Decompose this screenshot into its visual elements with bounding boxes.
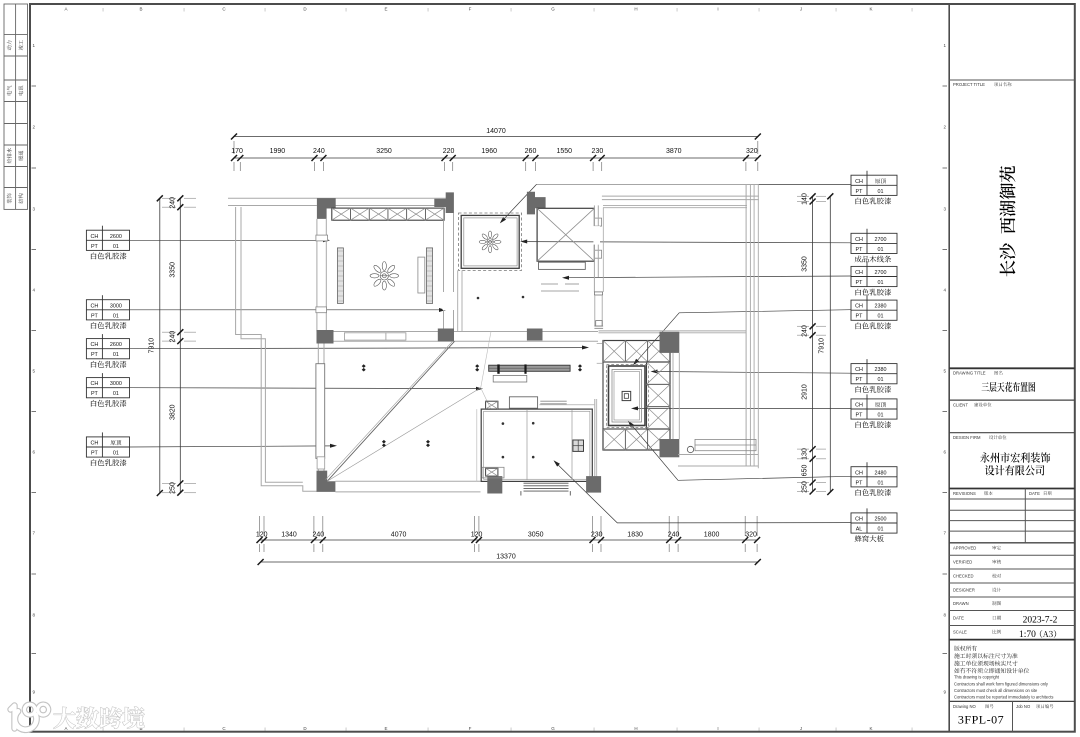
bedroom2 left wall window gap (593, 226, 600, 245)
discipline label 电气 (7, 86, 12, 96)
entry X-box top-left (486, 401, 498, 409)
svg-text:1990: 1990 (270, 148, 286, 155)
caption 白色乳胶漆 (856, 421, 892, 428)
stairwell sill below (539, 262, 586, 269)
svg-text:CLIENT: CLIENT (953, 402, 968, 407)
svg-text:250: 250 (802, 481, 809, 493)
stair steps right (594, 218, 601, 226)
svg-text:240: 240 (170, 197, 177, 209)
column at living top-mid (438, 329, 454, 342)
svg-text:H: H (634, 7, 637, 12)
entry bottom-left column (487, 476, 502, 493)
column left of stairwell (T-shape) (527, 192, 546, 215)
svg-text:|: | (835, 7, 836, 12)
bedroom wing bottom wall (678, 454, 758, 456)
title block divider (948, 4, 950, 732)
ceiling label box R2 CH2700 wood trim (851, 233, 897, 253)
svg-text:|: | (676, 7, 677, 12)
living ceiling slope diagonal 2 (327, 388, 481, 481)
leader R8 with bend to entry ceiling (556, 463, 851, 523)
top-right wall band (602, 195, 759, 197)
downlight symbol living 4 (382, 440, 386, 447)
master coffer dashed recess border (607, 365, 649, 428)
svg-text:PT: PT (856, 377, 864, 383)
ceiling label box R5 CH2380 (851, 364, 897, 384)
lower wall stub (596, 321, 603, 327)
dining column top-left (L-shape) (317, 198, 336, 219)
column at living room top-left (317, 330, 334, 344)
svg-text:G: G (551, 726, 555, 731)
svg-text:240: 240 (802, 325, 809, 337)
svg-text:|: | (758, 7, 759, 12)
svg-text:CH: CH (91, 342, 99, 348)
svg-text:240: 240 (312, 532, 324, 539)
column at living top-right (527, 329, 543, 341)
svg-text:Drawing NO: Drawing NO (953, 704, 977, 709)
bedroom2 top wall (603, 204, 747, 206)
master centre light fixture (622, 391, 631, 400)
living bottom wall (335, 480, 480, 482)
svg-text:01: 01 (878, 413, 884, 419)
entry landing frame around X-box (482, 467, 504, 478)
svg-text:130: 130 (802, 448, 809, 460)
terrace left wall with step (236, 207, 317, 491)
svg-text:G: G (551, 7, 555, 12)
entry downlight 3 (502, 456, 505, 459)
svg-text:|: | (676, 726, 677, 731)
ceiling label box R8 CH2500 honeycomb panel (851, 513, 897, 533)
right dimension chain (812, 196, 814, 491)
svg-text:2700: 2700 (875, 270, 887, 276)
bathroom circle (ceiling rose) (687, 446, 693, 452)
svg-text:2023-7-2: 2023-7-2 (1023, 616, 1058, 626)
svg-text:F: F (469, 7, 472, 12)
master coffer right X band (647, 362, 671, 429)
drawing title text (982, 382, 1036, 392)
svg-text:|: | (264, 7, 265, 12)
svg-text:01: 01 (113, 244, 119, 250)
ceiling label box R1 CH original ceiling (851, 175, 897, 195)
svg-text:|: | (102, 7, 103, 12)
svg-text:230: 230 (592, 148, 604, 155)
discipline label 结构 (18, 193, 23, 203)
svg-text:PT: PT (856, 314, 864, 320)
svg-text:H: H (634, 726, 637, 731)
svg-text:260: 260 (525, 148, 537, 155)
svg-text:B: B (139, 7, 142, 12)
bedroom2 left wall (593, 205, 595, 292)
discipline table top-left (4, 4, 28, 209)
TV strip shelf below (493, 375, 527, 382)
svg-text:01: 01 (113, 391, 119, 397)
living left window strip (316, 364, 325, 459)
downlight symbol living 3 (578, 364, 582, 371)
svg-text:13370: 13370 (496, 554, 516, 561)
svg-text:01: 01 (113, 451, 119, 457)
discipline label 装饰 (7, 193, 12, 203)
entry downlight 4 (532, 456, 535, 459)
ceiling label box L3 CH2600 (86, 339, 129, 359)
svg-text:PT: PT (91, 391, 99, 397)
svg-text:|: | (183, 7, 184, 12)
svg-text:DRAWN: DRAWN (953, 601, 969, 606)
svg-text:|: | (427, 726, 428, 731)
svg-text:DRAWING TITLE: DRAWING TITLE (953, 371, 986, 376)
svg-text:2380: 2380 (875, 367, 887, 373)
svg-text:3FPL-07: 3FPL-07 (958, 713, 1004, 727)
svg-text:120: 120 (471, 532, 483, 539)
svg-text:01: 01 (878, 480, 884, 486)
svg-text:VERIFIED: VERIFIED (953, 560, 972, 565)
dining left wall (316, 219, 318, 332)
leader L1 to dining ceiling (130, 239, 327, 241)
drawing no / job no divider (1012, 701, 1014, 731)
svg-text:CH: CH (855, 367, 863, 373)
svg-text:E: E (384, 7, 387, 12)
svg-text:01: 01 (878, 314, 884, 320)
entry steps (524, 482, 569, 484)
svg-text:250: 250 (170, 482, 177, 494)
discipline label 给排水 (7, 148, 12, 163)
entry hall outer rect (481, 409, 592, 481)
svg-text:|: | (911, 7, 912, 12)
svg-text:220: 220 (443, 148, 455, 155)
svg-text:PT: PT (856, 413, 864, 419)
svg-text:3870: 3870 (666, 148, 682, 155)
svg-text:PT: PT (856, 280, 864, 286)
svg-text:650: 650 (802, 465, 809, 477)
svg-text:2600: 2600 (110, 342, 122, 348)
svg-text:|: | (835, 726, 836, 731)
caption 白色乳胶漆 (91, 361, 127, 368)
svg-text:E: E (384, 726, 387, 731)
right wall verticals (745, 184, 747, 466)
svg-text:140: 140 (802, 193, 809, 205)
TV feature wall strip (489, 365, 570, 371)
svg-text:CH: CH (91, 303, 99, 309)
downlight symbol living 5 (426, 440, 430, 447)
leader R3 (566, 276, 851, 278)
entry vent grille (573, 440, 584, 451)
downlight symbol living 2 (475, 364, 479, 371)
svg-text:|: | (510, 726, 511, 731)
watermark logo 100 (11, 706, 15, 729)
bottom overall dimension 13370 (261, 561, 758, 563)
svg-text:CH: CH (91, 441, 99, 447)
svg-text:3350: 3350 (170, 262, 177, 278)
svg-text:K: K (869, 7, 872, 12)
door opening in shared wall (344, 333, 386, 340)
leader L2 (130, 309, 443, 311)
entry ceiling divider lines (526, 410, 528, 480)
leader R5 (654, 372, 851, 374)
wall band between dining and living (317, 331, 598, 333)
leader L5 (130, 446, 334, 447)
master coffer corner column top (660, 332, 680, 353)
svg-text:SCALE: SCALE (953, 630, 967, 635)
svg-text:CH: CH (855, 470, 863, 476)
svg-text:1960: 1960 (481, 148, 497, 155)
svg-text:PROJECT TITLE: PROJECT TITLE (953, 82, 985, 87)
master recess frame (609, 366, 646, 426)
dining left wall lower notch (316, 307, 327, 313)
leader R2 (524, 242, 851, 243)
dining left wall window notch (316, 235, 328, 241)
svg-text:01: 01 (878, 280, 884, 286)
living room left wall (317, 344, 319, 478)
svg-text:240: 240 (313, 148, 325, 155)
wing left window frame below (594, 295, 596, 326)
svg-text:01: 01 (878, 527, 884, 533)
right overall dimension 7910 (829, 196, 831, 492)
svg-text:DESIGN FIRM: DESIGN FIRM (953, 435, 981, 440)
ceiling label box R3 CH2700 (851, 266, 897, 286)
discipline label 竣工 (18, 40, 23, 50)
caption 白色乳胶漆 (91, 459, 127, 466)
dining column top-right (T-shape) (434, 192, 454, 213)
bedroom2 / bath divider stub (594, 292, 602, 295)
discipline label 暖通 (18, 151, 23, 161)
closet coffer outer frame (461, 215, 519, 268)
revisions date column divider (1024, 489, 1026, 543)
ceiling label box L2 CH3000 (86, 300, 129, 320)
svg-text:CHECKED: CHECKED (953, 574, 973, 579)
svg-text:CH: CH (91, 234, 99, 240)
caption 白色乳胶漆 (856, 489, 892, 496)
ceiling label box L1 CH2600 (86, 230, 129, 250)
svg-text:CH: CH (855, 179, 863, 185)
svg-text:|: | (593, 726, 594, 731)
svg-text:PT: PT (91, 244, 99, 250)
leader L3 to living room ceiling (130, 348, 586, 349)
svg-text:|: | (345, 726, 346, 731)
svg-text:F: F (469, 726, 472, 731)
caption 蜂窝大板 (855, 535, 884, 542)
curtain strip right (426, 248, 432, 304)
bottom dimension chain (260, 539, 758, 541)
svg-text:3000: 3000 (110, 381, 122, 387)
svg-text:A: A (64, 726, 67, 731)
caption 白色乳胶漆 (856, 197, 892, 204)
svg-text:APPROVED: APPROVED (953, 546, 976, 551)
svg-text:3820: 3820 (170, 404, 177, 420)
svg-text:PT: PT (91, 313, 99, 319)
svg-text:I: I (717, 7, 718, 12)
discipline label 电讯 (18, 86, 23, 96)
leader R7 with bend (630, 424, 851, 481)
living ceiling slope diagonal 1 (327, 341, 454, 481)
closet dashed trim border (459, 213, 522, 270)
svg-text:CH: CH (855, 403, 863, 409)
ceiling label box L4 CH3000 (86, 378, 129, 398)
svg-text:PT: PT (91, 451, 99, 457)
svg-text:PT: PT (856, 189, 864, 195)
ceiling label box R4 CH2380 (851, 300, 897, 320)
dining room top wall (228, 197, 450, 199)
discipline label 动力 (7, 41, 12, 51)
svg-text:240: 240 (668, 532, 680, 539)
svg-text:A: A (64, 7, 67, 12)
svg-text:1550: 1550 (557, 148, 573, 155)
svg-text:170: 170 (231, 148, 243, 155)
svg-text:J: J (800, 726, 802, 731)
svg-text:|: | (427, 7, 428, 12)
caption 白色乳胶漆 (91, 400, 127, 407)
svg-text:7910: 7910 (149, 338, 156, 354)
leader R1 with bend (503, 184, 851, 220)
copyright notes (954, 646, 977, 651)
svg-text:PT: PT (856, 247, 864, 253)
svg-text:K: K (869, 726, 872, 731)
svg-text:2480: 2480 (875, 470, 887, 476)
entry X-box bottom-left (486, 468, 498, 476)
caption 白色乳胶漆 (91, 322, 127, 329)
svg-text:|: | (345, 7, 346, 12)
downlight dot hall 2 (522, 296, 525, 299)
TV strip divider right (524, 364, 526, 373)
svg-text:3000: 3000 (110, 303, 122, 309)
caption 成品木线条 (855, 255, 892, 262)
closet coffer inner frame (464, 218, 517, 266)
svg-text:CH: CH (855, 270, 863, 276)
svg-text:01: 01 (878, 377, 884, 383)
entry downlight 2 (532, 422, 535, 425)
svg-text:2380: 2380 (875, 304, 887, 310)
svg-text:AL: AL (856, 527, 863, 533)
svg-text:DATE: DATE (1029, 491, 1040, 496)
dining right wall opening (443, 292, 455, 310)
ceiling fan closet room (479, 231, 501, 253)
svg-text:DATE: DATE (953, 616, 964, 621)
svg-text:230: 230 (591, 532, 603, 539)
downlight symbol living 1 (362, 364, 366, 371)
svg-text:1:70: 1:70 (1019, 630, 1036, 640)
bedroom2 inner left wall (602, 208, 604, 292)
master coffer outer frame (603, 341, 670, 451)
connector stubs left of coffer (597, 343, 603, 345)
top dimension chain (234, 157, 758, 159)
entry outer ground line (476, 409, 478, 481)
svg-text:2500: 2500 (875, 517, 887, 523)
title block horizontal rules (949, 79, 1075, 81)
entry right wall (594, 399, 596, 477)
svg-text:REVISIONS: REVISIONS (953, 491, 976, 496)
master coffer top X band (603, 341, 670, 363)
svg-text:2600: 2600 (110, 234, 122, 240)
leader R6 (635, 407, 851, 409)
svg-text:|: | (510, 7, 511, 12)
svg-text:3250: 3250 (376, 148, 392, 155)
svg-text:01: 01 (878, 189, 884, 195)
dining right wall (443, 220, 445, 331)
living bottom-left column (L) (317, 471, 336, 492)
svg-text:|: | (264, 726, 265, 731)
svg-text:01: 01 (113, 313, 119, 319)
svg-text:J: J (800, 7, 802, 12)
design firm line 2 (985, 465, 1044, 476)
hall wall below closet (457, 270, 459, 331)
caption 白色乳胶漆 (856, 289, 892, 296)
svg-text:2910: 2910 (802, 384, 809, 400)
svg-text:120: 120 (256, 532, 268, 539)
svg-text:240: 240 (170, 331, 177, 343)
design firm line 1 (980, 452, 1050, 463)
bathroom top wall (599, 330, 747, 332)
master coffer corner column bottom (660, 439, 680, 457)
svg-text:1340: 1340 (281, 532, 297, 539)
caption 白色乳胶漆 (856, 322, 892, 329)
master recess inner frame (612, 370, 642, 423)
entry bottom-right column (586, 476, 601, 493)
entry hall inner rect (484, 411, 590, 479)
svg-text:1830: 1830 (627, 532, 643, 539)
caption 白色乳胶漆 (856, 386, 892, 393)
svg-text:|: | (593, 7, 594, 12)
svg-text:2700: 2700 (875, 237, 887, 243)
svg-text:7910: 7910 (819, 338, 826, 354)
entry top canopy (509, 397, 537, 408)
canopy shelf line (539, 404, 594, 406)
svg-text:PT: PT (91, 352, 99, 358)
wall piece below window (317, 457, 325, 469)
leader R4 with bend (636, 310, 851, 363)
svg-text:320: 320 (745, 532, 757, 539)
balcony steps bottom-right (695, 439, 756, 450)
svg-text:CH: CH (855, 517, 863, 523)
svg-text:Job NO: Job NO (1016, 704, 1031, 709)
TV strip divider left (497, 364, 499, 373)
svg-text:4070: 4070 (391, 532, 407, 539)
svg-text:|: | (183, 726, 184, 731)
downlight dot hall (477, 297, 480, 300)
svg-text:320: 320 (746, 148, 758, 155)
ceiling fan dining room (370, 262, 399, 291)
svg-text:|: | (911, 726, 912, 731)
watermark text 大数跨境 (54, 707, 145, 729)
opening second leaf (386, 333, 406, 340)
svg-text:PT: PT (856, 480, 864, 486)
svg-text:CH: CH (855, 237, 863, 243)
stairwell box with X (537, 208, 594, 261)
svg-text:|: | (758, 726, 759, 731)
svg-text:This drawing is copyright: This drawing is copyright (954, 674, 1000, 679)
construction line up (481, 332, 491, 388)
svg-text:01: 01 (878, 247, 884, 253)
svg-text:3050: 3050 (528, 532, 544, 539)
svg-text:DESIGNER: DESIGNER (953, 588, 975, 593)
master coffer bottom X band (603, 429, 670, 450)
dining ceiling beam with cross hatch (332, 208, 444, 220)
svg-text:CH: CH (855, 304, 863, 310)
svg-text:Contractors must check all dim: Contractors must check all dimensions on… (954, 688, 1038, 693)
svg-text:3350: 3350 (802, 256, 809, 272)
svg-text:14070: 14070 (486, 128, 506, 135)
ceiling label box R6 CH original ceiling (851, 399, 897, 419)
leader L4 (130, 387, 480, 390)
left overall dimension 7910 (159, 198, 161, 493)
left dimension chain (179, 198, 181, 492)
ceiling label box R7 CH2480 (851, 467, 897, 487)
top overall dimension 14070 (234, 136, 758, 138)
svg-text:I: I (717, 726, 718, 731)
svg-text:CH: CH (91, 381, 99, 387)
curtain strip left (337, 248, 343, 304)
caption 白色乳胶漆 (91, 252, 127, 259)
entry downlight 1 (502, 422, 505, 425)
svg-text:Contractors shall work form fi: Contractors shall work form figured dime… (954, 681, 1049, 686)
construction line down-right (481, 388, 491, 410)
wall between master and bath (672, 353, 674, 439)
